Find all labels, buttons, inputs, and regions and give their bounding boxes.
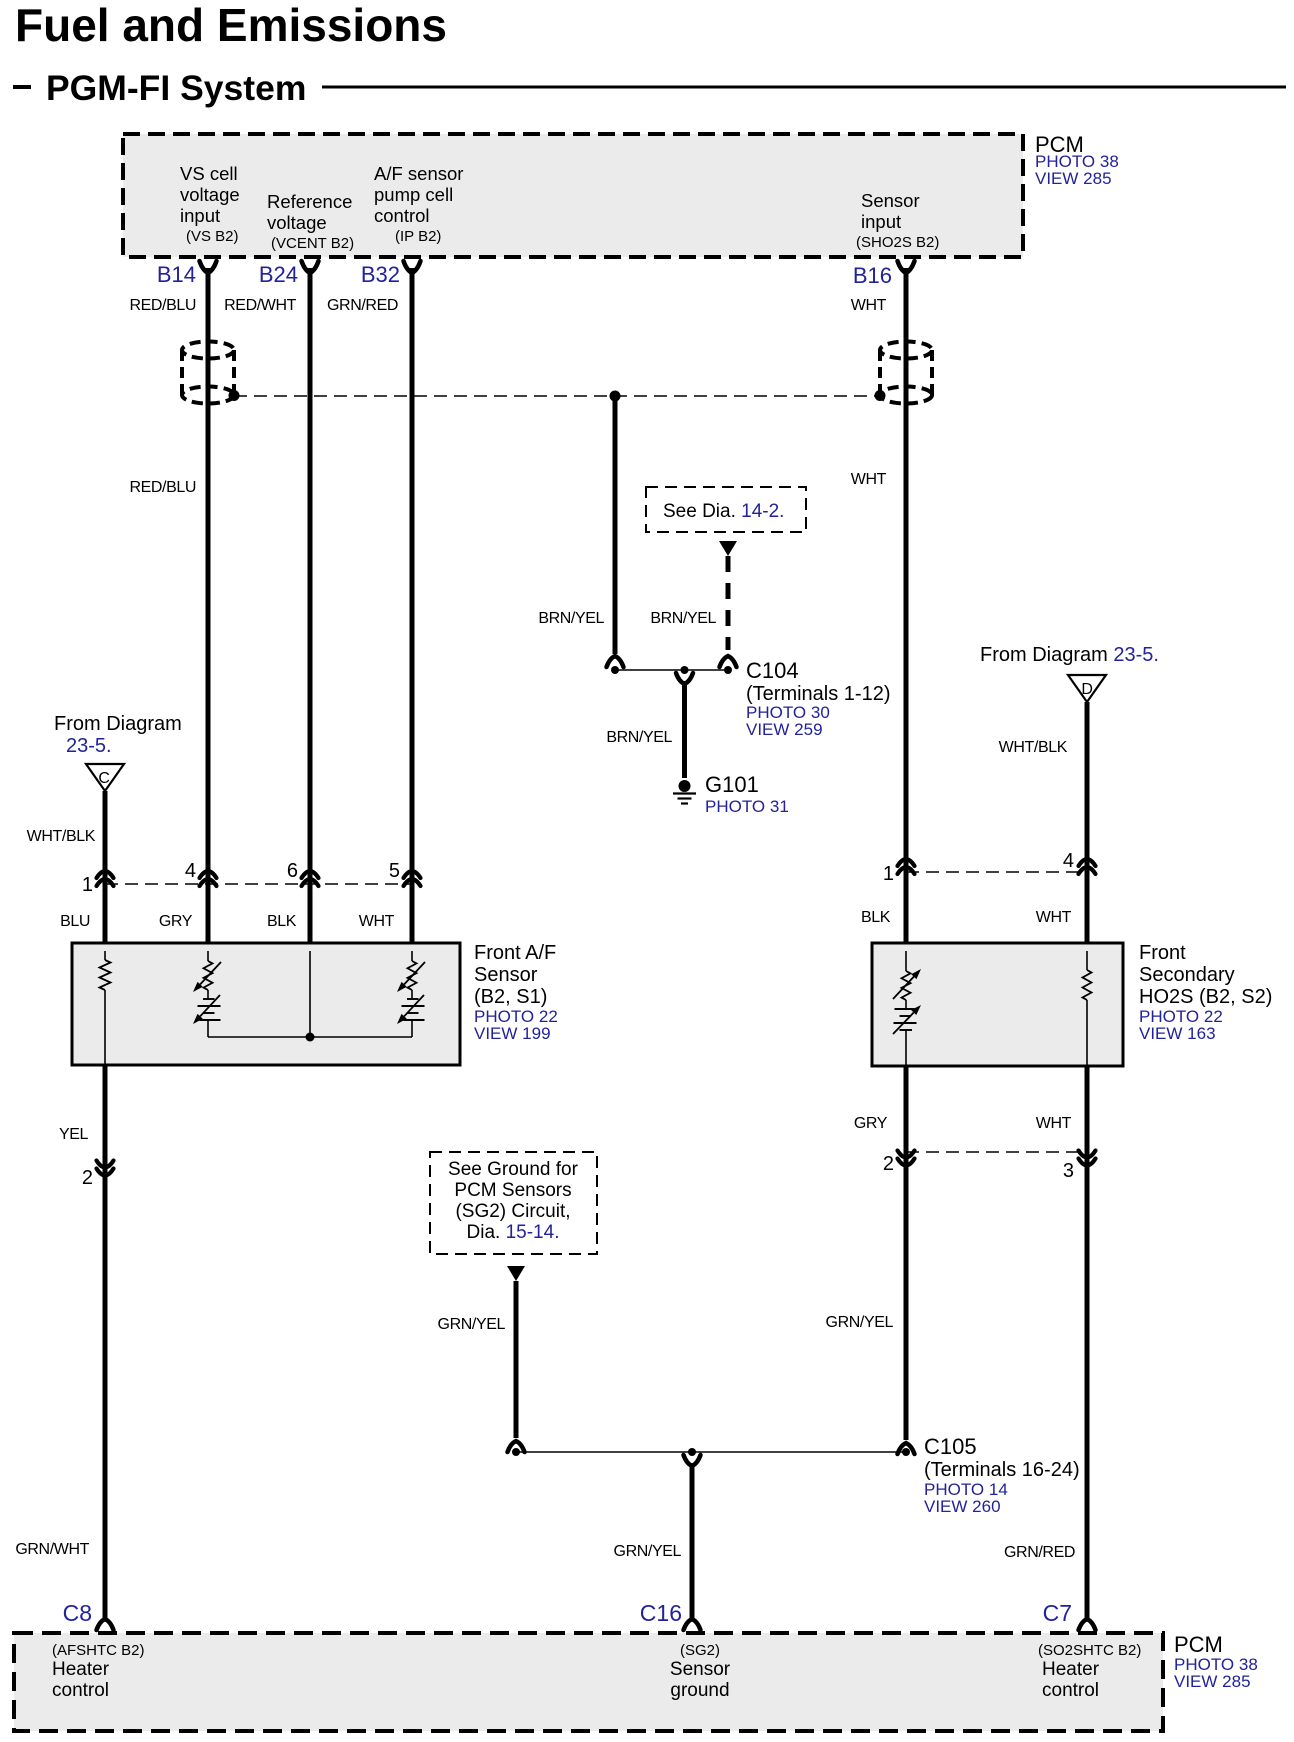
svg-text:(SO2SHTC B2): (SO2SHTC B2) xyxy=(1038,1642,1141,1659)
svg-text:BRN/YEL: BRN/YEL xyxy=(650,610,716,627)
svg-text:VIEW 163: VIEW 163 xyxy=(1139,1024,1216,1043)
svg-text:G101: G101 xyxy=(705,772,759,797)
svg-text:(AFSHTC B2): (AFSHTC B2) xyxy=(52,1642,145,1659)
svg-text:VS cell: VS cell xyxy=(180,163,238,184)
svg-text:BLK: BLK xyxy=(267,913,297,930)
svg-text:See Ground for: See Ground for xyxy=(448,1159,579,1180)
svg-text:RED/WHT: RED/WHT xyxy=(224,297,296,314)
svg-text:input: input xyxy=(180,205,220,226)
svg-text:WHT/BLK: WHT/BLK xyxy=(27,828,96,845)
svg-text:C16: C16 xyxy=(640,1600,682,1626)
svg-text:(B2, S1): (B2, S1) xyxy=(474,986,547,1008)
svg-text:ground: ground xyxy=(670,1680,729,1701)
svg-text:GRY: GRY xyxy=(854,1115,888,1132)
svg-text:(SG2) Circuit,: (SG2) Circuit, xyxy=(455,1201,570,1222)
svg-text:GRN/YEL: GRN/YEL xyxy=(438,1316,506,1333)
svg-text:(SHO2S B2): (SHO2S B2) xyxy=(856,234,939,251)
svg-text:Front: Front xyxy=(1139,942,1186,964)
svg-text:PHOTO 31: PHOTO 31 xyxy=(705,797,789,816)
svg-text:GRN/YEL: GRN/YEL xyxy=(826,1314,894,1331)
svg-text:1: 1 xyxy=(883,863,894,885)
svg-text:input: input xyxy=(861,211,901,232)
svg-text:4: 4 xyxy=(185,860,196,882)
svg-text:control: control xyxy=(52,1680,109,1701)
svg-text:PCM Sensors: PCM Sensors xyxy=(454,1180,571,1201)
svg-text:WHT: WHT xyxy=(1036,1115,1072,1132)
svg-text:B32: B32 xyxy=(361,262,400,287)
svg-text:2: 2 xyxy=(82,1167,93,1189)
svg-text:PCM: PCM xyxy=(1174,1632,1223,1657)
svg-text:B14: B14 xyxy=(157,262,196,287)
svg-text:From Diagram: From Diagram xyxy=(54,713,182,735)
svg-text:D: D xyxy=(1081,681,1092,698)
svg-text:1: 1 xyxy=(82,874,93,896)
svg-text:voltage: voltage xyxy=(180,184,240,205)
svg-text:VIEW 259: VIEW 259 xyxy=(746,720,823,739)
svg-text:VIEW 285: VIEW 285 xyxy=(1174,1672,1251,1691)
svg-text:Secondary: Secondary xyxy=(1139,964,1235,986)
svg-text:2: 2 xyxy=(883,1153,894,1175)
svg-text:B24: B24 xyxy=(259,262,298,287)
svg-text:YEL: YEL xyxy=(59,1126,89,1143)
svg-text:Front A/F: Front A/F xyxy=(474,942,556,964)
svg-text:3: 3 xyxy=(1063,1160,1074,1182)
svg-text:GRN/WHT: GRN/WHT xyxy=(15,1541,89,1558)
svg-text:(IP B2): (IP B2) xyxy=(395,228,441,245)
svg-text:control: control xyxy=(374,205,430,226)
svg-text:RED/BLU: RED/BLU xyxy=(129,479,196,496)
svg-text:BLU: BLU xyxy=(60,913,90,930)
svg-text:4: 4 xyxy=(1063,850,1074,872)
svg-text:From Diagram 23-5.: From Diagram 23-5. xyxy=(980,644,1159,666)
svg-text:Sensor: Sensor xyxy=(474,964,538,986)
svg-text:(Terminals 1-12): (Terminals 1-12) xyxy=(746,683,890,705)
svg-text:BRN/YEL: BRN/YEL xyxy=(538,610,604,627)
svg-text:Heater: Heater xyxy=(52,1659,110,1680)
svg-text:C104: C104 xyxy=(746,658,799,683)
svg-text:VIEW 199: VIEW 199 xyxy=(474,1024,551,1043)
svg-text:GRN/YEL: GRN/YEL xyxy=(614,1543,682,1560)
svg-text:Sensor: Sensor xyxy=(861,190,920,211)
svg-text:C7: C7 xyxy=(1043,1600,1072,1626)
svg-text:6: 6 xyxy=(287,860,298,882)
svg-text:VIEW 260: VIEW 260 xyxy=(924,1497,1001,1516)
svg-text:C105: C105 xyxy=(924,1434,977,1459)
svg-text:5: 5 xyxy=(389,860,400,882)
svg-text:control: control xyxy=(1042,1680,1099,1701)
svg-text:WHT: WHT xyxy=(851,297,887,314)
svg-text:See Dia. 14-2.: See Dia. 14-2. xyxy=(663,501,784,522)
svg-text:C: C xyxy=(98,770,109,787)
svg-text:WHT: WHT xyxy=(851,471,887,488)
svg-text:A/F sensor: A/F sensor xyxy=(374,163,463,184)
svg-text:VIEW 285: VIEW 285 xyxy=(1035,169,1112,188)
svg-text:Heater: Heater xyxy=(1042,1659,1100,1680)
svg-text:B16: B16 xyxy=(853,263,892,288)
svg-text:pump cell: pump cell xyxy=(374,184,453,205)
svg-text:Dia. 15-14.: Dia. 15-14. xyxy=(467,1222,560,1243)
svg-text:GRY: GRY xyxy=(159,913,193,930)
svg-text:Sensor: Sensor xyxy=(670,1659,731,1680)
svg-text:BLK: BLK xyxy=(861,909,891,926)
svg-text:GRN/RED: GRN/RED xyxy=(327,297,398,314)
svg-text:(VS B2): (VS B2) xyxy=(186,228,239,245)
svg-text:C8: C8 xyxy=(63,1600,92,1626)
svg-text:RED/BLU: RED/BLU xyxy=(129,297,196,314)
svg-text:WHT: WHT xyxy=(359,913,395,930)
svg-text:(Terminals 16-24): (Terminals 16-24) xyxy=(924,1459,1080,1481)
svg-text:Reference: Reference xyxy=(267,191,352,212)
svg-text:GRN/RED: GRN/RED xyxy=(1004,1544,1075,1561)
svg-text:WHT/BLK: WHT/BLK xyxy=(999,739,1068,756)
svg-text:PGM-FI System: PGM-FI System xyxy=(46,68,306,108)
svg-text:voltage: voltage xyxy=(267,212,327,233)
svg-text:(VCENT B2): (VCENT B2) xyxy=(271,235,354,252)
svg-text:BRN/YEL: BRN/YEL xyxy=(606,729,672,746)
svg-text:(SG2): (SG2) xyxy=(680,1642,720,1659)
svg-text:23-5.: 23-5. xyxy=(66,735,112,757)
svg-text:HO2S (B2, S2): HO2S (B2, S2) xyxy=(1139,986,1272,1008)
svg-text:WHT: WHT xyxy=(1036,909,1072,926)
svg-text:Fuel and Emissions: Fuel and Emissions xyxy=(15,0,447,51)
